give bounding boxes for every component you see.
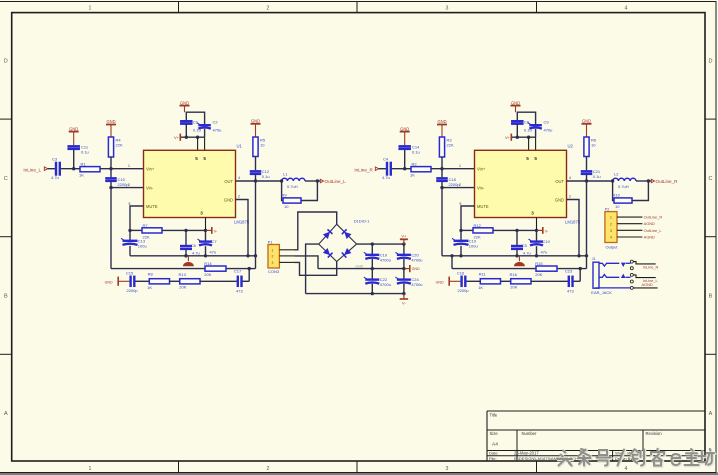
wire Vin- to IC pin 2 xyxy=(111,187,144,189)
svg-text:V-: V- xyxy=(214,228,218,233)
svg-text:3: 3 xyxy=(446,466,449,472)
svg-text:470u: 470u xyxy=(213,127,222,132)
svg-text:5: 5 xyxy=(534,156,537,161)
svg-text:CON3: CON3 xyxy=(268,269,280,274)
ground GND above C11 xyxy=(69,131,79,133)
capacitor C13 electrolytic xyxy=(129,230,131,240)
svg-text:D: D xyxy=(4,58,8,64)
svg-text:4.7u: 4.7u xyxy=(382,175,390,180)
svg-text:V-: V- xyxy=(402,301,406,306)
wire input row xyxy=(379,168,386,170)
wire IC pin3 down xyxy=(536,218,538,231)
svg-text:2: 2 xyxy=(459,183,461,187)
output port OutLine_R xyxy=(651,179,654,182)
svg-text:Size: Size xyxy=(490,431,499,436)
svg-text:GND: GND xyxy=(105,280,113,284)
wire row2 xyxy=(452,268,587,270)
capacitor C18 xyxy=(441,169,443,178)
svg-text:4: 4 xyxy=(569,176,571,180)
power port V- at pin3 xyxy=(206,229,212,231)
wire feedback row xyxy=(162,229,206,231)
bottom window gray bar xyxy=(0,472,718,475)
wire OUT row xyxy=(236,180,282,182)
svg-text:4700u: 4700u xyxy=(380,282,391,287)
resistor R1 series xyxy=(80,167,100,172)
wire decoupling bottom xyxy=(516,124,518,137)
svg-text:0.1u: 0.1u xyxy=(593,174,601,179)
watermark glyph hao xyxy=(597,450,612,466)
svg-text:4.7u: 4.7u xyxy=(192,251,200,256)
svg-text:C5: C5 xyxy=(522,243,528,248)
svg-text:Number: Number xyxy=(522,431,537,436)
resistor R2 series xyxy=(411,167,431,172)
jack sleeve wire xyxy=(596,287,631,289)
svg-text:4.7u: 4.7u xyxy=(523,251,531,256)
wire out loop right xyxy=(301,181,317,201)
wire GND pin down xyxy=(236,200,249,256)
power port V+ xyxy=(179,134,181,141)
resistor R15 xyxy=(536,266,557,271)
svg-text:D1DIO-1: D1DIO-1 xyxy=(354,219,371,224)
ground GND above R3 xyxy=(437,124,447,126)
svg-text:Date:: Date: xyxy=(489,451,499,456)
svg-text:1K: 1K xyxy=(79,173,84,178)
resistor R9 damping xyxy=(283,198,301,203)
ground GND above C14 xyxy=(400,131,410,133)
svg-text:2200p: 2200p xyxy=(127,288,139,293)
wire gnd stub xyxy=(515,106,517,113)
svg-text:1: 1 xyxy=(89,466,92,472)
svg-text:470u: 470u xyxy=(544,127,553,132)
power port GND right xyxy=(404,268,410,270)
wire Vin- column down xyxy=(441,188,443,256)
svg-text:GND: GND xyxy=(224,198,233,203)
resistor R12 feedback xyxy=(461,229,473,231)
svg-text:B: B xyxy=(709,294,713,300)
svg-text:OUT: OUT xyxy=(555,179,564,184)
svg-text:OUT: OUT xyxy=(224,179,233,184)
node Vin- junction xyxy=(440,186,443,189)
wire row3 xyxy=(200,280,237,282)
resistor R10 damping xyxy=(614,198,632,203)
watermark glyph chuang xyxy=(631,449,645,466)
wire row3 xyxy=(170,280,180,282)
node Vin- junction xyxy=(109,186,112,189)
svg-text:L1: L1 xyxy=(283,171,288,176)
svg-text:10: 10 xyxy=(615,204,620,209)
svg-text:J1: J1 xyxy=(592,257,596,261)
svg-text:InLine_R: InLine_R xyxy=(354,167,373,172)
zone tick bottom xyxy=(536,461,538,472)
svg-text:C10: C10 xyxy=(543,239,551,244)
node B junction xyxy=(109,167,112,170)
capacitor C9 electrolytic xyxy=(529,124,542,126)
wire gnd stub xyxy=(586,124,588,137)
capacitor C23 xyxy=(568,276,570,288)
svg-text:5: 5 xyxy=(195,156,198,161)
watermark glyph tiao xyxy=(578,449,591,466)
wire gnd stub xyxy=(73,132,75,146)
zone tick left xyxy=(0,353,12,355)
svg-text:Drawn By:: Drawn By: xyxy=(615,456,633,461)
svg-text:4: 4 xyxy=(610,236,612,240)
svg-text:3: 3 xyxy=(610,229,612,233)
svg-text:Revision: Revision xyxy=(646,431,663,436)
wire V+ to IC top pins xyxy=(528,137,530,150)
svg-text:4: 4 xyxy=(238,176,240,180)
watermark glyph fang xyxy=(699,449,715,465)
wire gnd stub xyxy=(441,125,443,138)
svg-text:V-: V- xyxy=(545,228,549,233)
wire IC pin3 down xyxy=(205,218,207,231)
svg-text:C23: C23 xyxy=(565,269,573,274)
zone tick right xyxy=(705,118,716,120)
svg-text:C9: C9 xyxy=(544,119,550,124)
svg-text:U2: U2 xyxy=(568,144,574,149)
ground GND top decoupling xyxy=(180,105,190,107)
svg-text:L2: L2 xyxy=(614,171,619,176)
svg-text:473: 473 xyxy=(236,288,243,293)
svg-text:0.7uH: 0.7uH xyxy=(287,184,298,189)
svg-text:C2: C2 xyxy=(213,119,219,124)
wire pin2 to gnd rail xyxy=(295,256,319,269)
svg-text:GND: GND xyxy=(511,100,520,105)
svg-text:R1: R1 xyxy=(81,162,87,167)
svg-text:10: 10 xyxy=(284,204,289,209)
capacitor C19 electrolytic filter xyxy=(371,244,373,255)
wire row2 xyxy=(111,268,256,270)
svg-text:1: 1 xyxy=(459,164,461,168)
svg-text:25-May-2017: 25-May-2017 xyxy=(514,451,539,456)
jack tip contact arm R xyxy=(599,263,619,266)
svg-text:1: 1 xyxy=(272,248,274,252)
svg-text:R8: R8 xyxy=(148,271,154,276)
capacitor C5 feedback xyxy=(516,230,518,245)
svg-text:100u: 100u xyxy=(469,244,478,249)
wire R1 to IC pin 1 xyxy=(431,168,475,170)
pin 3 stub xyxy=(617,229,642,231)
wire cap to row xyxy=(73,150,75,169)
svg-text:InLine_R: InLine_R xyxy=(643,264,659,269)
junction dots xyxy=(516,136,519,139)
pin 3 stub xyxy=(279,261,294,263)
wire feedback row xyxy=(493,229,537,231)
capacitor C8 decoupling xyxy=(511,120,524,122)
wire row3 xyxy=(531,280,568,282)
wire row3 xyxy=(466,280,480,282)
svg-text:C3: C3 xyxy=(52,157,58,162)
ground GND top decoupling xyxy=(511,105,521,107)
zone tick top xyxy=(178,2,180,13)
svg-text:5: 5 xyxy=(203,156,206,161)
wire zobel to OUT and down to row2 xyxy=(255,175,257,181)
svg-text:2: 2 xyxy=(238,194,240,198)
svg-text:C7: C7 xyxy=(212,239,218,244)
svg-text:GND: GND xyxy=(180,100,189,105)
wire cap to row xyxy=(404,150,406,169)
wire C10 to Vin- node xyxy=(110,182,112,188)
resistor R6 zobel xyxy=(584,137,589,157)
wire R4 to row xyxy=(110,157,112,169)
watermark glyph zhu xyxy=(685,449,700,466)
svg-text:D: D xyxy=(709,58,713,64)
svg-text:4: 4 xyxy=(625,466,628,472)
svg-text:1K: 1K xyxy=(478,285,483,290)
resistor R3 bias xyxy=(439,137,444,157)
capacitor C12 zobel xyxy=(250,170,262,172)
svg-text:R2: R2 xyxy=(412,162,418,167)
svg-text:0.1u: 0.1u xyxy=(81,149,89,154)
wire decoupling bottom xyxy=(185,124,187,137)
wire zobel to OUT and down to row2 xyxy=(586,175,588,181)
svg-text:C16: C16 xyxy=(457,270,465,275)
wire riser row2-row3 xyxy=(579,269,581,282)
ground GND above zobel R5 xyxy=(251,123,261,125)
svg-text:Vin+: Vin+ xyxy=(146,167,155,172)
svg-text:GND: GND xyxy=(106,119,115,124)
resistor R5 zobel xyxy=(253,137,258,157)
pin 4 stub xyxy=(617,236,642,238)
svg-text:AGND: AGND xyxy=(642,282,653,287)
svg-text:GND: GND xyxy=(355,264,363,268)
wire C10 to Vin- node xyxy=(441,182,443,188)
capacitor C6 feedback xyxy=(185,230,187,245)
resistor R16 xyxy=(511,279,531,284)
capacitor C7 electrolytic feedback xyxy=(205,230,207,241)
svg-text:4: 4 xyxy=(625,5,628,11)
wire R1 to IC pin 1 xyxy=(100,168,144,170)
capacitor C22 electrolytic filter xyxy=(371,269,373,280)
wire to node A xyxy=(392,168,411,170)
capacitor C2 electrolytic xyxy=(198,124,211,126)
svg-text:Vin-: Vin- xyxy=(477,186,485,191)
svg-text:R12: R12 xyxy=(474,223,482,228)
wire row3 xyxy=(501,280,511,282)
svg-text:0.1u: 0.1u xyxy=(412,149,420,154)
svg-text:R11: R11 xyxy=(479,271,487,276)
jack pins xyxy=(630,260,633,263)
wire row3 xyxy=(135,280,149,282)
svg-text:5: 5 xyxy=(460,202,462,206)
diode D1d bridge bottom-right xyxy=(337,244,357,261)
svg-text:A: A xyxy=(4,411,8,417)
wire jack ring out xyxy=(633,275,655,278)
resistor R13 xyxy=(180,279,200,284)
svg-text:2: 2 xyxy=(610,222,612,226)
op-amp IC U2 LM1875 xyxy=(475,150,567,217)
svg-text:Title: Title xyxy=(490,413,498,418)
wire row1 xyxy=(130,255,256,257)
junction dots xyxy=(185,136,188,139)
svg-text:P2: P2 xyxy=(605,207,610,211)
watermark slash xyxy=(618,450,625,467)
svg-text:A4: A4 xyxy=(492,442,498,448)
svg-text:4.7u: 4.7u xyxy=(51,175,59,180)
wire decoupling top xyxy=(517,112,535,125)
svg-text:GND: GND xyxy=(412,267,420,271)
capacitor C21 zobel xyxy=(581,170,593,172)
svg-text:3: 3 xyxy=(446,5,449,11)
wire R4 to row xyxy=(441,157,443,169)
wire jack sleeve out xyxy=(633,287,657,289)
svg-text:GND: GND xyxy=(400,126,409,131)
svg-text:100u: 100u xyxy=(138,244,147,249)
svg-text:MUTE: MUTE xyxy=(477,204,489,209)
svg-text:4700u: 4700u xyxy=(411,257,422,262)
ground GND above zobel R6 xyxy=(582,123,592,125)
svg-text:InLine_L: InLine_L xyxy=(23,167,41,172)
diode D1a bridge top-left xyxy=(319,224,337,244)
svg-text:V+: V+ xyxy=(505,135,511,140)
wire out loop right xyxy=(632,181,648,201)
svg-text:C17: C17 xyxy=(234,269,242,274)
pin 2 stub xyxy=(279,255,294,257)
wire bridge left vertex to V- rail xyxy=(306,244,319,294)
svg-text:1: 1 xyxy=(89,5,92,11)
pin 1 stub xyxy=(617,216,642,218)
capacitor C19 electrolytic xyxy=(460,230,462,240)
svg-text:OutLine_L: OutLine_L xyxy=(644,228,663,233)
ground GND above R4 xyxy=(106,124,116,126)
capacitor C11 shunt xyxy=(67,145,80,147)
svg-text:AGND: AGND xyxy=(644,221,655,226)
wire GND pin down xyxy=(567,200,580,256)
svg-text:0.1u: 0.1u xyxy=(262,174,270,179)
zone tick left xyxy=(0,118,12,120)
svg-text:GND: GND xyxy=(582,119,591,124)
svg-text:GND: GND xyxy=(69,126,78,131)
svg-text:OutLine_L: OutLine_L xyxy=(325,179,347,184)
svg-text:3: 3 xyxy=(272,261,274,265)
inductor L2 xyxy=(613,178,636,181)
svg-text:4700u: 4700u xyxy=(411,282,422,287)
svg-text:V+: V+ xyxy=(401,234,407,239)
svg-text:R13: R13 xyxy=(179,272,187,277)
zone tick bottom xyxy=(356,461,358,472)
svg-text:47u: 47u xyxy=(210,249,217,254)
svg-text:1: 1 xyxy=(128,164,130,168)
wire row3 end xyxy=(574,280,581,282)
svg-text:U1: U1 xyxy=(237,144,243,149)
svg-text:Vin+: Vin+ xyxy=(477,167,486,172)
svg-text:20K: 20K xyxy=(179,285,186,290)
svg-text:1K: 1K xyxy=(147,285,152,290)
wire pin3 to bridge bottom xyxy=(295,262,337,276)
svg-text:3: 3 xyxy=(531,211,534,216)
svg-text:C4: C4 xyxy=(383,157,389,162)
connector P2 Output xyxy=(605,212,617,243)
capacitor C17 xyxy=(237,276,239,288)
wire MUTE xyxy=(130,206,144,230)
capacitor C20 electrolytic filter xyxy=(403,244,405,255)
svg-text:AGND: AGND xyxy=(644,235,655,240)
pin 1 stub xyxy=(279,249,294,251)
svg-text:File:: File: xyxy=(489,456,497,461)
wire jack tip out xyxy=(633,262,655,264)
svg-text:2: 2 xyxy=(267,466,270,472)
svg-text:22K: 22K xyxy=(447,143,454,148)
svg-text:GND: GND xyxy=(436,280,444,284)
wire input row xyxy=(48,168,55,170)
svg-text:EAR_JACK: EAR_JACK xyxy=(591,290,612,295)
wire OUT row xyxy=(567,180,613,182)
wire decoupling top xyxy=(186,112,204,125)
svg-text:C: C xyxy=(4,176,8,182)
capacitor C1 decoupling xyxy=(180,120,193,122)
wire out loop xyxy=(611,179,614,182)
title block frame xyxy=(487,410,705,412)
svg-text:OutLine_R: OutLine_R xyxy=(656,179,679,184)
svg-text:0.7uH: 0.7uH xyxy=(618,184,629,189)
svg-text:V+: V+ xyxy=(174,135,180,140)
svg-text:1K: 1K xyxy=(410,173,415,178)
svg-text:2200p: 2200p xyxy=(458,288,470,293)
svg-text:C6: C6 xyxy=(191,243,197,248)
svg-text:OutLine_R: OutLine_R xyxy=(644,215,663,220)
power port V+ xyxy=(510,134,512,141)
svg-text:10: 10 xyxy=(260,143,265,148)
svg-text:47u: 47u xyxy=(541,249,548,254)
power port V- at pin3 xyxy=(537,229,543,231)
svg-text:GND: GND xyxy=(251,119,260,124)
svg-text:2: 2 xyxy=(272,255,274,259)
svg-text:Output: Output xyxy=(606,244,619,249)
wire gnd stub xyxy=(404,132,406,146)
svg-text:P1: P1 xyxy=(268,241,273,245)
wire V+ to IC top pins xyxy=(197,137,199,150)
zone tick bottom xyxy=(178,461,180,472)
capacitor C15 xyxy=(129,276,131,288)
node FB junction xyxy=(459,229,462,232)
svg-text:3: 3 xyxy=(200,211,203,216)
wire Vin- column down xyxy=(110,188,112,269)
wire MUTE xyxy=(461,206,475,230)
node FB junction xyxy=(128,229,131,232)
pin 2 stub xyxy=(617,223,642,225)
svg-text:2: 2 xyxy=(267,5,270,11)
wire pin1 to bridge top xyxy=(295,212,337,250)
diode D1c bridge bottom-left xyxy=(319,244,337,261)
svg-text:5: 5 xyxy=(129,202,131,206)
watermark glyph tou xyxy=(558,451,573,467)
svg-text:A: A xyxy=(709,411,713,417)
node A junction xyxy=(403,167,406,170)
svg-text:GND: GND xyxy=(437,119,446,124)
ground earth symbol xyxy=(187,256,189,261)
svg-text:2: 2 xyxy=(128,183,130,187)
power port V+ xyxy=(403,239,405,244)
zone tick top xyxy=(536,2,538,13)
wire zobel xyxy=(255,157,257,171)
wire out loop xyxy=(280,179,283,182)
capacitor C3 input coupling xyxy=(55,162,57,176)
zone tick top xyxy=(356,2,358,13)
zone tick left xyxy=(0,236,12,238)
op-amp IC U1 LM1875 xyxy=(144,150,236,217)
svg-text:R15: R15 xyxy=(535,261,543,266)
svg-text:4700u: 4700u xyxy=(380,257,391,262)
svg-text:20K: 20K xyxy=(510,285,517,290)
capacitor C4 input coupling xyxy=(386,162,388,176)
svg-text:R9: R9 xyxy=(282,192,288,197)
wire V+ rail xyxy=(357,243,404,245)
svg-text:10: 10 xyxy=(591,143,596,148)
svg-text:B: B xyxy=(4,294,8,300)
wire row3 end xyxy=(243,280,250,282)
zone tick right xyxy=(705,353,716,355)
svg-text:22K: 22K xyxy=(116,143,123,148)
watermark glyph ke xyxy=(651,449,665,467)
